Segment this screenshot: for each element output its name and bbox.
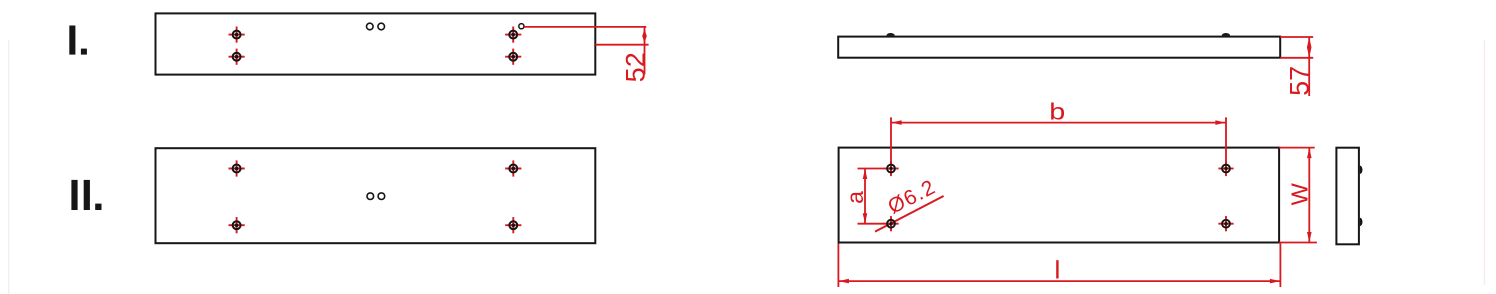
svg-text:W: W (1287, 182, 1313, 205)
hole diameter leader line (875, 196, 944, 232)
dimensioned plate outline (839, 148, 1280, 243)
dimension b arrow right (1215, 120, 1225, 125)
dimension b extension right (1225, 117, 1227, 168)
dimension W arrow down (1307, 232, 1312, 242)
label II. (71, 180, 101, 210)
plate II center holes pair (367, 193, 385, 200)
dimension 52 leader from pivot hole (524, 26, 646, 28)
dimension W arrow up (1307, 148, 1312, 158)
dimension l text (1056, 260, 1058, 278)
dimension W line (1308, 148, 1310, 243)
side view screw head top (1360, 166, 1363, 174)
dimension l arrow right (1270, 279, 1280, 284)
dimensioned plate hole bottom-right (1218, 216, 1233, 231)
dimension 57 extension top (1280, 36, 1313, 38)
dimension 57 arrow down (1307, 47, 1312, 57)
svg-text:b: b (1049, 98, 1065, 125)
side view outline (1336, 148, 1359, 245)
edge view screw head right (1222, 33, 1230, 36)
dimensioned plate hole bottom-left (883, 216, 898, 231)
dimension l line (838, 280, 1280, 282)
dimension b extension left (890, 117, 892, 168)
dimension a extension bottom (858, 223, 885, 225)
dimensioned plate hole top-right (1218, 161, 1233, 176)
plate II hole bottom-right (505, 217, 521, 233)
edge view outline (838, 37, 1280, 58)
plate I outline (156, 13, 596, 74)
dimension a arrow down (863, 213, 868, 223)
dimension a extension top (858, 168, 885, 170)
dimension l extension right (1279, 244, 1281, 288)
dimension a arrow up (863, 169, 868, 179)
dimension 52 extension from plate edge (595, 44, 648, 46)
dimension l extension left (837, 244, 839, 288)
plate II hole bottom-left (229, 217, 245, 233)
label I. (69, 26, 87, 55)
plate I pivot hole (519, 24, 524, 29)
plate II hole top-right (505, 160, 521, 176)
dimension a line (864, 169, 866, 224)
plate II hole top-left (229, 160, 245, 176)
dimension 52 arrow up (642, 27, 647, 37)
plate II outline (156, 148, 596, 243)
plate I hole bottom-left (229, 49, 245, 65)
dimension l arrow left (839, 279, 849, 284)
dimensioned plate hole top-left (883, 161, 898, 176)
plate I hole top-right (505, 26, 521, 42)
svg-text:52: 52 (621, 52, 651, 82)
dimension 52 line (644, 27, 646, 74)
edge view screw head left (886, 33, 894, 36)
dimension b line (891, 122, 1226, 124)
plate I hole top-left (229, 26, 245, 42)
dimension 52 arrow down (642, 35, 647, 45)
dimension b arrow left (891, 120, 901, 125)
dimension 57 arrow up (1307, 37, 1312, 47)
svg-text:a: a (842, 191, 868, 204)
dimension 57 line (1308, 37, 1310, 96)
svg-text:57: 57 (1284, 66, 1314, 96)
plate I center holes pair (367, 23, 385, 30)
dimension W extension bottom (1279, 242, 1317, 244)
page edge line right (1484, 40, 1486, 285)
dimension 57 extension bottom (1280, 57, 1313, 59)
plate I hole bottom-right (505, 49, 521, 65)
page edge line left (8, 40, 10, 294)
side view screw head bottom (1360, 218, 1363, 226)
dimension W extension top (1279, 147, 1315, 149)
